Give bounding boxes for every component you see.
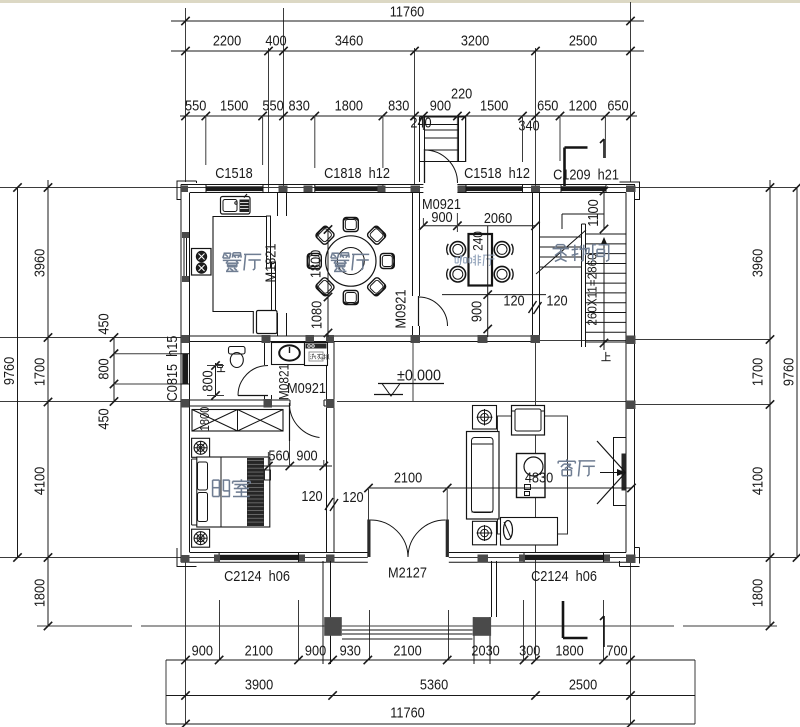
washing machine	[305, 343, 328, 366]
wall W2 dining/hall x=415	[412, 193, 414, 297]
svg-text:240: 240	[470, 231, 486, 251]
door M0821 bath (leaf+arc)	[238, 395, 268, 397]
wash basin	[272, 343, 305, 365]
svg-text:4830: 4830	[525, 468, 554, 485]
svg-text:M0921: M0921	[391, 289, 408, 328]
axis line x=185 top	[185, 8, 187, 182]
kitchen sink	[221, 197, 251, 215]
column 330/bottom	[326, 555, 335, 563]
svg-text:11760: 11760	[390, 2, 425, 19]
wall H1 y=337	[181, 335, 540, 337]
porch column left	[324, 617, 342, 636]
svg-text:650: 650	[537, 96, 558, 113]
bed blanket stripes	[248, 460, 264, 462]
column jamb462/top	[458, 186, 466, 193]
svg-text:800: 800	[94, 358, 111, 379]
svg-text:120: 120	[301, 487, 322, 504]
wall W6 bedroom/hall x=330	[326, 406, 328, 553]
grid line top wall axis y=187	[0, 187, 797, 189]
axis line x=283 top	[283, 8, 285, 192]
dim row3 bottom 11760	[166, 723, 695, 725]
door M0921 bedroom (leaf+arc)	[289, 403, 291, 441]
svg-text:650: 650	[607, 96, 628, 113]
grid line porch front y=626 dashed	[37, 625, 777, 627]
extension x=457 row3	[456, 116, 458, 162]
axis line x=630 top	[630, 2, 632, 182]
column D/H1	[411, 335, 421, 343]
svg-text:120: 120	[342, 488, 363, 505]
column E/top	[531, 186, 540, 193]
dim 900/2060 coffee top	[423, 225, 536, 227]
kitchen stove	[192, 249, 212, 276]
rug outline	[498, 416, 568, 534]
column 330/H1	[326, 335, 334, 343]
wall left outer face	[180, 185, 182, 563]
nightstand 1	[192, 438, 210, 457]
window C0815 band	[182, 354, 188, 384]
kitchen counter	[213, 217, 266, 334]
svg-text:450: 450	[94, 408, 111, 429]
svg-text:5360: 5360	[420, 675, 449, 692]
axis line x=414 top	[414, 48, 416, 184]
top cream strip	[0, 0, 800, 3]
dim col right 3960/1700/4100/1800	[769, 180, 771, 626]
svg-text:900: 900	[430, 96, 451, 113]
dim line 11760 top	[171, 20, 644, 22]
extension x=448 bottom	[448, 610, 450, 660]
wall top inner face	[190, 192, 626, 194]
extension x=382.9 row3	[382, 116, 384, 168]
column A/H2	[181, 399, 190, 408]
label wei	[217, 364, 222, 366]
axis line x=414 through foyer	[412, 342, 414, 402]
extension x=298 bottom	[298, 600, 300, 660]
corner table 2	[473, 521, 497, 545]
porch right edge upper	[491, 561, 493, 617]
axis line x=268 top	[268, 48, 270, 192]
wall W5 foyer x=330	[326, 342, 328, 401]
armchair	[512, 406, 545, 436]
window C2124 right	[524, 555, 604, 560]
dim 1100 stairs	[603, 187, 605, 229]
svg-text:1500: 1500	[480, 96, 509, 113]
column B/337	[626, 336, 636, 345]
svg-text:550: 550	[185, 96, 206, 113]
label canting kitchen	[224, 252, 231, 254]
extension x=205.8 row3	[205, 116, 207, 165]
svg-text:3960: 3960	[748, 249, 765, 278]
door M1821 sliding kitchen	[267, 216, 271, 268]
svg-text:700: 700	[606, 641, 627, 658]
wall H2 y=402 bedroom top	[181, 399, 290, 401]
tv arrow	[597, 441, 626, 473]
corner detail bottom-left	[177, 548, 197, 567]
wardrobe	[192, 410, 283, 432]
porch steps	[342, 629, 473, 631]
window C1209	[561, 186, 606, 191]
svg-text:1800: 1800	[555, 641, 584, 658]
sofa	[467, 432, 500, 520]
window kitchen left wall	[183, 238, 185, 276]
column wall282/top	[279, 186, 288, 193]
dim 1800/1080 dining	[327, 229, 329, 337]
dim row3 top	[180, 115, 637, 117]
svg-text:1800: 1800	[748, 579, 765, 608]
wall W1 kitchen/dining x=282	[277, 193, 279, 217]
column A/H1	[181, 335, 190, 343]
column D/top	[411, 186, 421, 193]
svg-text:2060: 2060	[484, 209, 513, 226]
column 310/H1	[306, 335, 315, 343]
door M0921 entrance top (leaf+arc)	[424, 149, 426, 183]
svg-text:900: 900	[296, 446, 317, 463]
svg-text:2100: 2100	[394, 468, 423, 485]
grid line y=339 right	[634, 339, 770, 341]
extension x=522.5 row3	[522, 116, 524, 162]
extension x=423 row3	[422, 116, 424, 130]
svg-text:M0921: M0921	[287, 379, 326, 396]
svg-text:900: 900	[467, 301, 484, 322]
column B/top	[626, 186, 636, 193]
svg-text:C1818 h12: C1818 h12	[324, 164, 390, 181]
section flag top	[565, 146, 588, 149]
svg-text:220: 220	[451, 84, 472, 101]
wall bottom outer face	[181, 561, 635, 563]
svg-text:3460: 3460	[335, 31, 364, 48]
extension x=262.6 row3	[262, 116, 264, 165]
svg-text:340: 340	[518, 116, 539, 133]
window C1518	[206, 186, 263, 191]
wall W3 coffee/storage x=535	[532, 193, 534, 337]
tv bench	[501, 518, 558, 546]
svg-text:C1518: C1518	[215, 164, 253, 181]
svg-text:±0.000: ±0.000	[397, 367, 441, 385]
stair label shang	[605, 352, 607, 361]
section flag bottom	[562, 601, 565, 638]
svg-text:1700: 1700	[748, 358, 765, 387]
column A/bottom	[181, 555, 190, 563]
svg-text:C1209 h21: C1209 h21	[553, 165, 619, 182]
axis line x=535 top	[535, 48, 537, 186]
svg-text:C1518 h12: C1518 h12	[464, 164, 530, 181]
svg-text:4100: 4100	[748, 467, 765, 496]
svg-text:1200: 1200	[569, 96, 598, 113]
svg-text:M2127: M2127	[388, 563, 427, 580]
svg-text:3200: 3200	[461, 31, 490, 48]
window C1518 h12	[466, 186, 523, 191]
nightstand 2	[192, 529, 210, 547]
grid line bottom wall axis y=557	[0, 557, 797, 559]
svg-text:560: 560	[268, 446, 289, 463]
svg-text:2500: 2500	[569, 31, 598, 48]
extension x=523 bottom	[523, 600, 525, 660]
svg-text:3960: 3960	[30, 249, 47, 278]
top wall door gap M0921	[423, 184, 457, 194]
grid line y=340 stairs strip	[539, 340, 626, 342]
svg-text:C0815 h15: C0815 h15	[163, 335, 180, 401]
dim frame x=695	[694, 660, 696, 724]
window C2124 left	[219, 555, 298, 560]
entrance steps top	[419, 117, 421, 182]
extension x=605.4 row3	[604, 116, 606, 158]
svg-text:M0921: M0921	[422, 195, 461, 212]
porch left edge	[322, 561, 324, 664]
svg-text:450: 450	[94, 313, 111, 334]
svg-text:1800: 1800	[197, 406, 212, 431]
svg-text:1800: 1800	[306, 250, 323, 279]
corner detail top-left	[177, 181, 197, 200]
extension x=314.8 row3	[314, 116, 316, 168]
svg-text:1500: 1500	[220, 96, 249, 113]
wall right inner face	[625, 193, 627, 553]
svg-text:1100: 1100	[584, 199, 601, 227]
svg-text:1800: 1800	[30, 579, 47, 608]
label keting	[566, 459, 568, 461]
coffee table	[517, 454, 546, 498]
extension x=560.0 row3	[559, 116, 561, 161]
svg-text:120: 120	[546, 291, 567, 308]
dim row1 bottom	[166, 659, 695, 661]
porch right edge lower	[473, 617, 475, 664]
column jamb607/bottom	[604, 555, 610, 562]
column jamb520/bottom	[519, 555, 525, 562]
section mark 1 bottom	[603, 616, 605, 647]
column jamb302/bottom	[299, 555, 305, 562]
break marks coffee wall	[529, 301, 537, 313]
svg-text:1700: 1700	[30, 358, 47, 387]
svg-text:2100: 2100	[393, 641, 422, 658]
bed	[197, 457, 270, 527]
svg-text:C2124 h06: C2124 h06	[531, 567, 597, 584]
svg-text:11760: 11760	[390, 703, 425, 720]
extension x=369 bottom	[369, 610, 371, 660]
bottom wall door gap M2127	[368, 552, 449, 564]
label canting dining	[332, 252, 339, 254]
axis line x=185 bottom	[185, 561, 187, 724]
wall right outer face	[634, 185, 636, 563]
column jamb381/top	[378, 186, 386, 193]
svg-text:2500: 2500	[569, 675, 598, 692]
dim 900 coffee vertical	[487, 226, 489, 337]
coffee table with 4 chairs	[469, 234, 493, 286]
column A/top	[181, 186, 188, 193]
window C1818	[315, 186, 383, 191]
svg-text:3900: 3900	[245, 675, 274, 692]
svg-text:120: 120	[503, 291, 524, 308]
grid line y=401 left	[0, 401, 181, 403]
column 330/H2	[326, 399, 335, 408]
dim 560/900 bedroom	[262, 465, 332, 467]
dim 800 bath	[215, 363, 217, 397]
dim col left 450/800/450	[113, 338, 115, 402]
grid line y=404 right	[634, 404, 770, 406]
column B/404	[626, 401, 636, 410]
section mark 1 top	[603, 139, 605, 158]
svg-text:260X11=2860: 260X11=2860	[585, 253, 600, 325]
svg-text:830: 830	[388, 96, 409, 113]
toilet	[229, 347, 246, 355]
svg-text:C2124 h06: C2124 h06	[224, 567, 290, 584]
dim row2 top 2200/400/3460/3200/2500	[171, 50, 644, 52]
label zawujian	[555, 245, 557, 248]
extension x=219 bottom	[219, 600, 221, 660]
extension x=465.8 row3	[465, 116, 467, 162]
grid line y=337 left	[0, 337, 181, 339]
break marks bedroom wall	[325, 498, 333, 510]
svg-text:240: 240	[410, 113, 431, 130]
extension x=603 bottom	[603, 600, 605, 660]
dim line 9760 right	[796, 187, 798, 557]
corner detail bottom-right	[620, 548, 640, 567]
column jamb308/top	[304, 186, 313, 193]
door M0921 dining-coffee (arc)	[419, 297, 448, 326]
svg-text:4100: 4100	[30, 467, 47, 496]
svg-text:M1821: M1821	[261, 243, 278, 282]
dim line 9760 left	[17, 187, 19, 557]
svg-text:930: 930	[340, 641, 361, 658]
corner table 1	[473, 406, 497, 430]
svg-text:300: 300	[519, 641, 540, 658]
dim col left 3960/1700/4100/1800	[47, 180, 49, 626]
wall left inner face	[189, 193, 191, 553]
svg-text:2100: 2100	[245, 641, 274, 658]
svg-text:400: 400	[265, 31, 286, 48]
tv on right wall	[614, 438, 627, 506]
svg-text:830: 830	[289, 96, 310, 113]
wall top outer face	[181, 184, 635, 186]
axis line x=535 through living room	[535, 342, 537, 553]
column jamb216/bottom	[214, 555, 220, 562]
svg-text:800: 800	[198, 370, 215, 391]
dim row2 bottom 3900/5360/2500	[166, 695, 695, 697]
corner detail top-right	[620, 182, 640, 200]
svg-text:1080: 1080	[307, 301, 324, 330]
axis line x=630 bottom	[630, 561, 632, 724]
dim frame x=166	[165, 660, 167, 724]
svg-text:1800: 1800	[335, 96, 364, 113]
column B/bottom	[626, 555, 636, 564]
stairs 260x11	[581, 224, 583, 347]
grid line y=401 foyer/living	[337, 401, 626, 403]
svg-text:2200: 2200	[213, 31, 242, 48]
column 266/H1	[262, 335, 271, 343]
door M2127 entrance bottom (leaves+arcs)	[367, 520, 370, 558]
svg-text:900: 900	[192, 641, 213, 658]
wall W4 bath divider x=268	[264, 342, 266, 366]
column 483/H1	[478, 335, 488, 343]
dim 2100/4830 living	[368, 487, 632, 489]
svg-text:2030: 2030	[471, 641, 500, 658]
porch column right	[473, 617, 491, 636]
svg-text:9760: 9760	[0, 357, 17, 386]
axis line x=535 bottom	[535, 560, 537, 660]
column E/H1	[531, 335, 541, 343]
dining table with 8 chairs	[326, 236, 376, 286]
label woshi	[212, 480, 214, 496]
svg-text:550: 550	[262, 96, 283, 113]
label kafeiting	[455, 257, 458, 259]
column 268/H2	[264, 399, 273, 408]
svg-text:9760: 9760	[779, 358, 796, 387]
wall bottom inner face	[190, 552, 626, 554]
column 483/bottom	[478, 555, 489, 563]
